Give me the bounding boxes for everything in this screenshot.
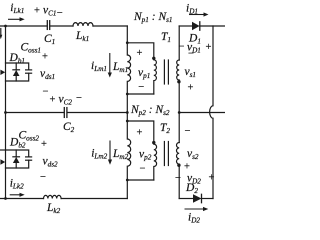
svg-text:T1: T1 — [161, 31, 171, 44]
node dot T1 secondary polarity — [177, 80, 180, 83]
wire top corner down to T1 — [126, 26, 128, 43]
svg-text:C1: C1 — [44, 33, 55, 46]
node T2 primary top — [126, 120, 129, 123]
wire top D1 branch — [179, 25, 192, 27]
svg-text:vds1: vds1 — [40, 68, 55, 81]
capacitor C1 — [47, 21, 49, 30]
arrowhead fragment S1 — [0, 70, 5, 75]
node T2 primary bottom — [126, 179, 129, 182]
winding T2 secondary vs2 — [177, 143, 180, 165]
svg-text:iLk2: iLk2 — [10, 178, 24, 191]
middle rail segment right — [179, 112, 225, 114]
svg-text:Lk2: Lk2 — [46, 202, 61, 215]
left rail vertical — [5, 26, 7, 199]
arrowhead fragment S2 — [0, 159, 5, 164]
wire T2 top to primary — [127, 121, 154, 141]
node middle left — [4, 111, 7, 114]
svg-text:−: − — [138, 82, 144, 93]
wire top right to edge — [200, 25, 225, 27]
svg-text:iLk1: iLk1 — [10, 2, 24, 15]
svg-text:+: + — [50, 95, 56, 106]
svg-text:Lm2: Lm2 — [112, 148, 129, 161]
current arrow iLk1 — [8, 17, 25, 21]
bottom rail right — [61, 198, 127, 200]
svg-text:+: + — [188, 83, 194, 94]
svg-text:−: − — [43, 87, 49, 98]
svg-text:+: + — [206, 42, 212, 53]
svg-text:vC2: vC2 — [59, 94, 73, 107]
svg-text:Lk1: Lk1 — [75, 30, 89, 43]
node dot T1 primary polarity — [152, 57, 155, 60]
wire bottom D2 branch — [179, 198, 193, 200]
svg-text:vp2: vp2 — [139, 149, 152, 162]
svg-text:vC1: vC1 — [43, 5, 57, 18]
arrowhead fragment top — [0, 35, 2, 39]
svg-text:Np1 : Ns1: Np1 : Ns1 — [133, 11, 173, 24]
wire center vertical between T1 and T2 — [126, 94, 128, 121]
svg-text:vs1: vs1 — [185, 66, 197, 79]
wire top rail left — [0, 25, 47, 27]
wire T2 secondary top lead — [178, 113, 180, 143]
svg-text:vp1: vp1 — [138, 67, 150, 80]
svg-text:−: − — [76, 93, 82, 104]
svg-text:−: − — [140, 164, 146, 175]
svg-text:+: + — [137, 128, 143, 139]
wire T2 primary bottom — [127, 179, 154, 181]
bottom rail left — [0, 198, 44, 200]
svg-text:iD2: iD2 — [188, 212, 200, 225]
svg-text:iLm1: iLm1 — [91, 60, 107, 73]
wire T2 down corner to bottom rail — [126, 180, 128, 199]
capacitor C2 — [64, 108, 67, 118]
inductor Lk1 — [73, 23, 93, 26]
svg-text:+: + — [184, 162, 190, 173]
svg-text:C2: C2 — [63, 121, 75, 134]
node middle center — [126, 111, 129, 114]
node dot T2 primary polarity — [152, 141, 155, 144]
current arrow iD2 — [185, 207, 209, 211]
middle rail segment left b — [68, 112, 128, 114]
node top left — [4, 25, 7, 28]
wire right vertical with hop — [210, 26, 213, 199]
body diode Db1 — [13, 63, 20, 81]
svg-text:Db1: Db1 — [9, 52, 26, 65]
svg-text:Coss1: Coss1 — [21, 42, 41, 55]
wire T1 primary bottom — [127, 93, 154, 95]
diode D1 — [192, 22, 200, 30]
svg-text:Np2 : Ns2: Np2 : Ns2 — [130, 104, 170, 117]
svg-text:Lm1: Lm1 — [112, 61, 128, 74]
inductor Lm1 — [127, 43, 130, 94]
wire top rail right — [93, 25, 127, 27]
svg-text:−: − — [179, 42, 185, 53]
core T1 — [164, 60, 168, 84]
svg-text:+: + — [34, 6, 40, 17]
winding T1 secondary vs1 — [177, 60, 180, 80]
current arrow iLm2 — [108, 141, 112, 165]
wire T1 secondary bottom lead — [178, 82, 180, 113]
svg-text:vD2: vD2 — [187, 173, 201, 186]
wire bottom right to vertical — [202, 198, 214, 200]
wire fragment left edge top — [0, 29, 2, 36]
wire T1 top to primary — [127, 43, 154, 57]
svg-text:iD1: iD1 — [186, 3, 198, 16]
svg-text:iLm2: iLm2 — [91, 148, 107, 161]
body diode Db2 — [13, 150, 20, 168]
node T1 primary bottom — [126, 93, 129, 96]
wire T2 secondary bottom lead — [178, 165, 180, 198]
node dot T2 secondary polarity — [177, 164, 180, 167]
inductor Lk2 — [44, 195, 62, 198]
capacitor Coss1 — [26, 70, 32, 73]
switch S1 box — [6, 63, 29, 81]
svg-text:+: + — [137, 48, 143, 59]
current arrow iLk2 — [10, 193, 25, 197]
svg-text:vs2: vs2 — [187, 148, 199, 161]
node middle rail right junction — [178, 111, 181, 114]
diode D2 — [193, 194, 202, 202]
svg-text:vds2: vds2 — [43, 156, 59, 169]
switch S2 box — [6, 150, 29, 168]
wire stub left of S2 — [0, 149, 6, 151]
wire top rail mid — [50, 25, 73, 27]
winding T2 primary vp2 — [154, 144, 157, 180]
current arrow iLm1 — [108, 53, 112, 78]
svg-text:+: + — [42, 52, 48, 63]
svg-text:−: − — [57, 8, 63, 19]
middle rail segment left — [6, 112, 64, 114]
node T1 primary top — [126, 41, 129, 44]
svg-text:T2: T2 — [160, 122, 170, 135]
svg-text:−: − — [185, 126, 191, 137]
svg-text:+: + — [209, 173, 215, 184]
svg-text:+: + — [41, 139, 47, 150]
inductor Lm2 — [127, 121, 130, 180]
capacitor Coss2 — [26, 157, 32, 160]
node bottom left — [4, 197, 7, 200]
core T2 — [164, 142, 168, 166]
svg-text:−: − — [175, 173, 181, 184]
winding T1 primary vp1 — [154, 60, 157, 94]
svg-text:−: − — [40, 172, 46, 183]
wire T1 secondary top lead — [178, 26, 180, 60]
current arrow iD1 — [189, 12, 209, 16]
